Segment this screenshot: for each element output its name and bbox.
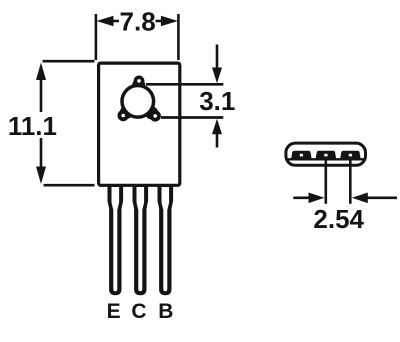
lead E: [108, 185, 124, 295]
mounting hole: [122, 86, 154, 118]
dimension 3.1 arrow down: [212, 45, 222, 84]
dimension 7.8 arrow left: [97, 16, 120, 27]
lead B: [158, 185, 174, 295]
lug hole top: [137, 79, 141, 83]
svg-text:2.54: 2.54: [313, 204, 364, 234]
lead C: [133, 185, 149, 295]
mounting lug top: [132, 76, 145, 93]
lug hole bottom-right: [153, 114, 157, 118]
dimension 7.8 arrow right: [156, 16, 178, 27]
package body (front view): [99, 63, 180, 185]
dimension 2.54 extension line left: [324, 160, 327, 204]
svg-text:3.1: 3.1: [199, 86, 235, 116]
mounting lug bottom-left: [118, 106, 134, 122]
dimension 7.8 extension line left: [95, 14, 98, 60]
mounting lug bottom-right: [145, 106, 161, 121]
dimension 3.1 reference line top: [146, 83, 223, 86]
pin 2 (side view): [316, 151, 336, 159]
pin 1 (side view): [291, 151, 311, 159]
lug hole bottom-left: [121, 114, 125, 118]
package outline (side view): [286, 143, 366, 165]
dimension 3.1 arrow up: [212, 119, 222, 148]
dimension 11.1 arrow line: [36, 63, 46, 185]
svg-text:7.8: 7.8: [120, 7, 156, 37]
svg-text:11.1: 11.1: [8, 111, 57, 141]
svg-text:B: B: [158, 300, 173, 323]
svg-text:E: E: [107, 300, 121, 323]
dimension 11.1 extension line bottom: [44, 184, 95, 187]
svg-text:C: C: [131, 300, 146, 323]
dimension 3.1 reference line bottom: [161, 116, 223, 119]
dimension 2.54 arrow right: [352, 193, 397, 204]
dimension 11.1 extension line top: [43, 60, 95, 63]
dimension 7.8 extension line right: [177, 14, 180, 60]
dimension 2.54 extension line right: [349, 160, 352, 204]
dimension 2.54 arrow left: [293, 193, 324, 204]
tab line (side view): [287, 158, 365, 160]
pin 3 (side view): [340, 151, 360, 159]
